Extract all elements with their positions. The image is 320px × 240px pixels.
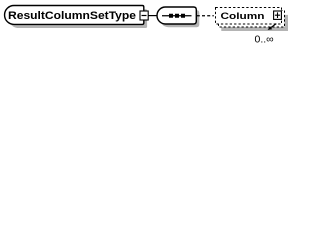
svg-text:Column: Column [221, 11, 265, 22]
element Column front box (optional) [216, 8, 282, 25]
wire from handle to sequence compositor [149, 15, 158, 17]
complexType box ResultColumnSetType [5, 6, 144, 25]
svg-text:0..∞: 0..∞ [255, 34, 274, 46]
sequence compositor shadow [160, 10, 199, 27]
reference arrowhead [268, 26, 273, 30]
sequence icon square 1 [169, 14, 173, 18]
element Column shadow [221, 15, 288, 31]
collapse handle (minus box) [140, 11, 148, 20]
svg-text:ResultColumnSetType: ResultColumnSetType [8, 10, 136, 22]
element Column back box (repeating) [219, 11, 285, 28]
sequence compositor [157, 7, 196, 24]
sequence icon square 2 [175, 14, 179, 18]
sequence icon line [162, 15, 192, 17]
reference arrow [271, 24, 277, 28]
plus sign [275, 12, 280, 18]
minus sign [142, 15, 147, 17]
expand handle (plus box) [274, 11, 282, 19]
dashed wire to optional element Column [197, 15, 214, 17]
complexType box ResultColumnSetType shadow [9, 9, 147, 28]
sequence icon square 3 [181, 14, 185, 18]
